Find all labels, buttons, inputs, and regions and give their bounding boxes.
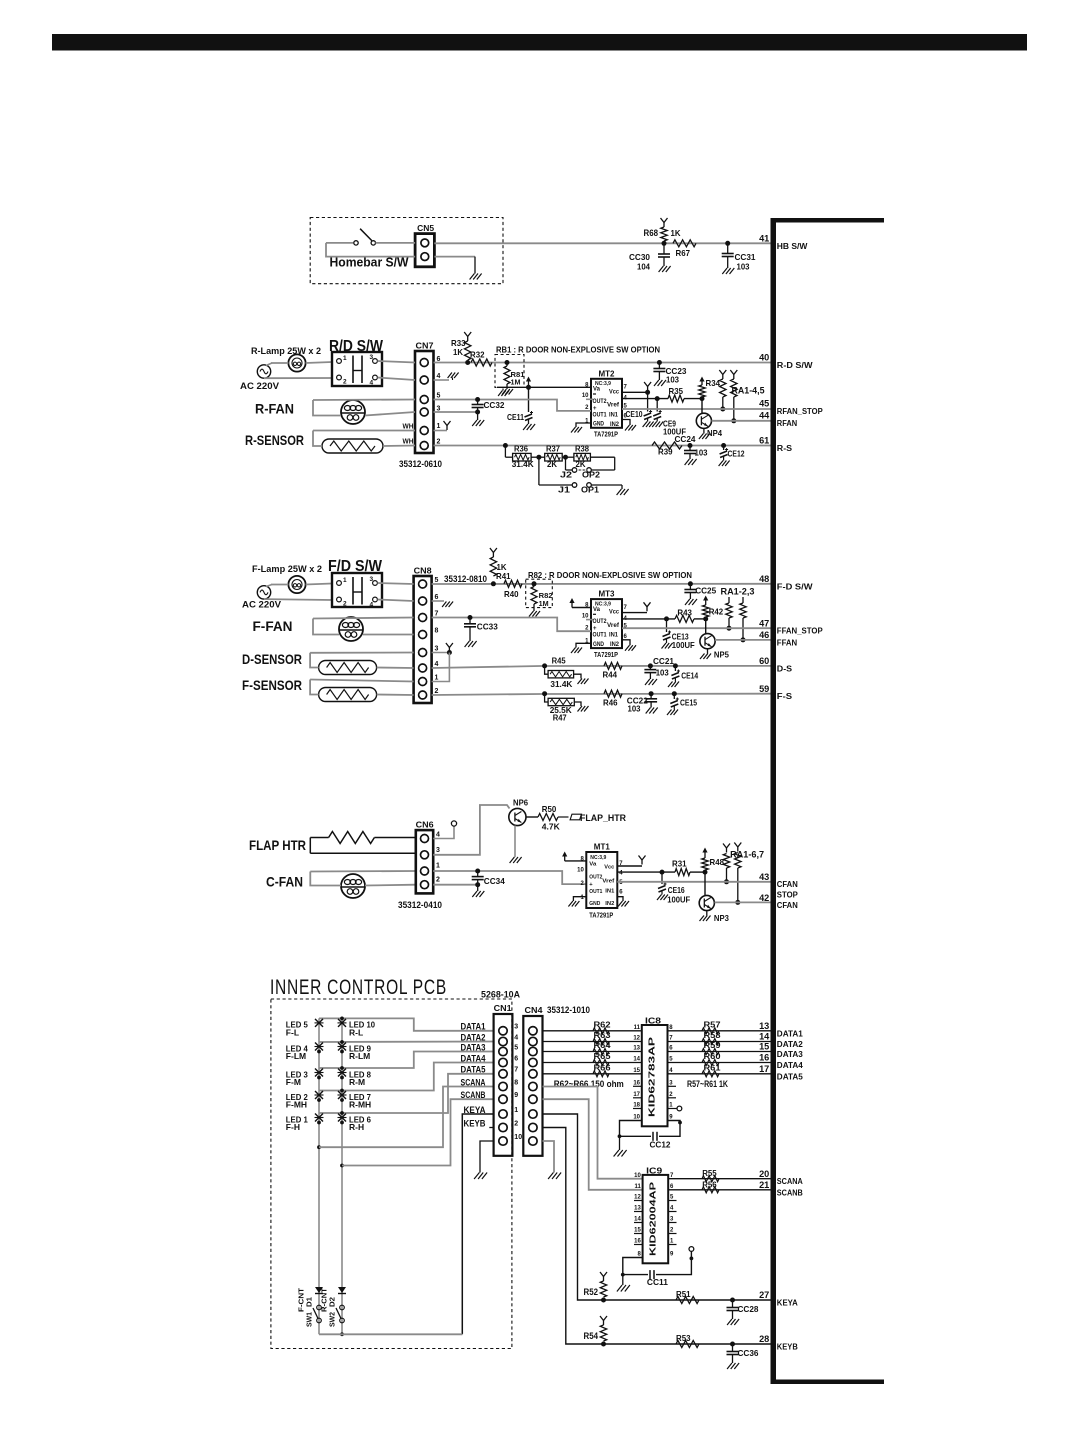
svg-text:OP1: OP1 [581,485,599,495]
svg-text:D2: D2 [328,1297,337,1307]
svg-text:R54: R54 [584,1331,599,1341]
svg-text:2: 2 [343,601,347,608]
svg-text:Vcc: Vcc [604,865,615,871]
svg-text:R63: R63 [594,1031,612,1040]
svg-text:2: 2 [435,688,439,695]
svg-text:35312-0810: 35312-0810 [444,574,487,584]
svg-text:DATA5: DATA5 [461,1065,486,1075]
svg-text:15: 15 [759,1042,769,1052]
svg-text:40: 40 [759,353,769,363]
svg-text:DATA1: DATA1 [461,1022,486,1032]
svg-text:F-H: F-H [286,1122,300,1132]
svg-text:R35: R35 [669,386,684,396]
svg-text:15: 15 [633,1068,640,1074]
svg-text:CC25: CC25 [695,586,716,596]
svg-text:SW1: SW1 [305,1312,314,1327]
svg-text:SCANA: SCANA [777,1176,803,1186]
svg-text:16: 16 [759,1053,769,1063]
svg-text:R59: R59 [704,1041,722,1050]
svg-text:CN5: CN5 [417,223,434,233]
svg-text:CC34: CC34 [484,876,505,886]
svg-text:48: 48 [759,574,769,584]
svg-text:10: 10 [633,1115,640,1121]
svg-text:IN2: IN2 [610,642,620,648]
svg-text:R82 : R DOOR NON-EXPLOSIVE SW: R82 : R DOOR NON-EXPLOSIVE SW OPTION [528,570,692,580]
svg-text:FFAN: FFAN [777,637,797,647]
svg-text:SCANA: SCANA [461,1077,486,1087]
svg-text:8: 8 [514,1079,518,1086]
svg-text:CN4: CN4 [525,1005,543,1015]
svg-text:59: 59 [759,684,769,694]
svg-text:1: 1 [437,423,441,430]
svg-text:10: 10 [514,1134,522,1141]
svg-text:WH: WH [403,437,414,446]
svg-text:4: 4 [435,661,439,668]
svg-text:R38: R38 [575,445,590,454]
svg-text:F-FAN: F-FAN [253,618,293,634]
svg-text:9: 9 [514,1092,518,1099]
svg-text:5: 5 [435,577,439,584]
svg-text:F-M: F-M [286,1077,301,1087]
svg-text:R34: R34 [706,378,721,388]
svg-text:OUT1: OUT1 [593,633,608,639]
svg-text:7: 7 [514,1067,518,1074]
svg-text:OUT1: OUT1 [589,889,603,895]
svg-text:47: 47 [759,618,769,628]
svg-text:2K: 2K [576,459,587,469]
svg-text:R-M: R-M [349,1077,365,1087]
svg-text:F-L: F-L [286,1028,299,1038]
svg-text:+: + [589,882,593,888]
svg-text:CC36: CC36 [738,1348,759,1358]
svg-text:R31: R31 [672,859,687,869]
svg-text:CE10: CE10 [626,409,643,419]
svg-text:5: 5 [437,393,441,400]
svg-text:17: 17 [633,1092,640,1098]
svg-text:1M: 1M [511,378,521,387]
svg-text:TA7291P: TA7291P [594,430,618,439]
svg-text:4: 4 [436,832,440,839]
svg-text:43: 43 [759,872,769,882]
svg-text:R50: R50 [542,804,557,814]
svg-text:1: 1 [436,863,440,870]
svg-text:F-Lamp 25W x 2: F-Lamp 25W x 2 [252,564,322,574]
svg-text:1K: 1K [671,228,682,238]
svg-text:R68: R68 [644,228,659,238]
svg-text:60: 60 [759,656,769,666]
svg-text:1M: 1M [539,599,549,608]
svg-text:103: 103 [628,704,641,714]
svg-text:R45: R45 [552,657,567,666]
svg-text:R55: R55 [702,1169,717,1178]
svg-text:R32: R32 [470,350,485,360]
svg-text:103: 103 [656,668,669,678]
svg-text:28: 28 [759,1334,769,1344]
svg-text:16: 16 [634,1239,641,1245]
svg-text:3: 3 [436,847,440,854]
svg-text:DATA3: DATA3 [777,1049,803,1059]
svg-text:13: 13 [633,1046,640,1052]
svg-text:OP2: OP2 [582,470,600,480]
svg-text:SCANB: SCANB [461,1090,486,1100]
svg-text:F-S: F-S [777,691,793,701]
svg-text:8: 8 [435,628,439,635]
svg-text:13: 13 [759,1021,769,1031]
svg-text:R-D S/W: R-D S/W [777,360,814,370]
svg-text:RFAN_STOP: RFAN_STOP [777,406,823,416]
svg-text:RFAN: RFAN [777,418,797,428]
svg-text:GND: GND [589,901,600,907]
svg-text:D1: D1 [305,1297,314,1307]
svg-text:D-S: D-S [777,663,793,673]
svg-text:F-D S/W: F-D S/W [777,581,814,591]
svg-text:45: 45 [759,399,769,409]
svg-text:3: 3 [370,576,374,583]
svg-text:CC24: CC24 [675,434,696,444]
svg-text:NP6: NP6 [513,798,528,808]
svg-text:NP5: NP5 [714,650,729,660]
svg-text:J1: J1 [558,485,570,495]
svg-text:IN1: IN1 [605,889,615,895]
svg-text:4: 4 [514,1034,518,1041]
svg-text:STOP: STOP [777,890,798,900]
svg-text:WH: WH [403,422,414,431]
svg-text:Vref: Vref [602,879,614,885]
svg-text:C-FAN: C-FAN [266,874,303,890]
svg-text:1: 1 [343,577,347,584]
svg-text:DATA1: DATA1 [777,1028,803,1038]
svg-text:CN7: CN7 [416,341,434,351]
svg-text:3: 3 [514,1024,518,1031]
svg-text:CC31: CC31 [735,252,756,262]
svg-text:R37: R37 [546,445,561,454]
svg-text:R44: R44 [603,670,618,680]
svg-text:R46: R46 [603,698,618,708]
svg-text:KEYA: KEYA [777,1298,798,1308]
svg-text:Va: Va [589,862,597,868]
svg-text:KID62004AP: KID62004AP [649,1181,658,1256]
svg-text:IC8: IC8 [645,1016,661,1026]
svg-text:13: 13 [634,1206,641,1212]
svg-text:RA1-4,5: RA1-4,5 [732,386,765,396]
svg-text:46: 46 [759,630,769,640]
svg-text:OUT2: OUT2 [589,875,602,881]
svg-text:R62: R62 [594,1020,612,1029]
svg-text:CN1: CN1 [494,1003,512,1013]
svg-text:OUT2: OUT2 [593,399,608,405]
svg-text:SW2: SW2 [328,1312,337,1327]
svg-text:15: 15 [634,1228,641,1234]
svg-text:R60: R60 [704,1052,722,1061]
svg-text:R36: R36 [514,445,529,454]
svg-text:Va: Va [593,387,601,393]
svg-text:R-Lamp 25W x 2: R-Lamp 25W x 2 [251,346,321,356]
svg-text:1K: 1K [453,347,464,357]
svg-text:R57~R61 1K: R57~R61 1K [687,1079,728,1089]
svg-text:Vref: Vref [607,403,620,409]
svg-text:3: 3 [370,354,374,361]
svg-text:INNER CONTROL PCB: INNER CONTROL PCB [270,976,447,999]
svg-text:31.4K: 31.4K [550,679,573,689]
svg-text:+: + [593,406,597,412]
svg-text:44: 44 [759,411,770,421]
svg-text:Vref: Vref [607,623,620,629]
svg-text:27: 27 [759,1290,769,1300]
svg-text:R-SENSOR: R-SENSOR [245,432,304,448]
svg-text:IN2: IN2 [605,901,614,907]
svg-text:R64: R64 [594,1041,612,1050]
svg-text:2: 2 [343,379,347,386]
svg-text:11: 11 [634,1025,641,1031]
svg-text:AC 220V: AC 220V [240,381,280,392]
svg-text:3: 3 [435,646,439,653]
svg-text:6: 6 [435,594,439,601]
svg-text:103: 103 [666,375,679,385]
svg-text:CN8: CN8 [414,566,432,576]
svg-text:10: 10 [577,868,584,874]
svg-text:R41: R41 [496,571,511,581]
svg-text:DATA3: DATA3 [461,1042,486,1052]
svg-text:IN1: IN1 [609,412,619,418]
svg-text:CC30: CC30 [629,252,650,262]
svg-text:35312-0410: 35312-0410 [398,900,442,910]
svg-text:1: 1 [514,1107,518,1114]
svg-text:F-MH: F-MH [286,1100,307,1110]
svg-text:R42: R42 [709,607,724,617]
svg-text:4.7K: 4.7K [542,822,561,832]
svg-text:DATA4: DATA4 [461,1053,486,1063]
svg-text:CC32: CC32 [484,400,505,410]
svg-text:104: 104 [637,262,650,272]
svg-text:R52: R52 [584,1287,599,1297]
svg-text:R67: R67 [676,248,691,258]
svg-text:+: + [593,626,597,632]
svg-text:TA7291P: TA7291P [589,911,613,920]
svg-text:16: 16 [633,1081,640,1087]
svg-text:10: 10 [582,393,589,399]
svg-text:CE15: CE15 [680,698,697,708]
svg-text:DATA4: DATA4 [777,1060,803,1070]
svg-text:MT2: MT2 [599,368,615,378]
svg-text:41: 41 [759,234,769,244]
svg-text:17: 17 [759,1064,769,1074]
svg-text:2: 2 [437,439,441,446]
svg-text:10: 10 [582,613,589,619]
svg-text:FLAP HTR: FLAP HTR [249,837,306,853]
svg-text:1: 1 [435,675,439,682]
svg-text:10: 10 [634,1173,641,1179]
svg-text:7: 7 [435,611,439,618]
svg-text:31.4K: 31.4K [512,459,535,469]
svg-text:F-LM: F-LM [286,1051,306,1061]
svg-text:IN2: IN2 [610,422,620,428]
svg-text:14: 14 [633,1057,640,1063]
svg-text:20: 20 [759,1169,769,1179]
svg-text:CFAN: CFAN [777,879,798,889]
svg-text:CE12: CE12 [728,449,745,459]
svg-text:CE14: CE14 [681,671,698,681]
svg-text:R47: R47 [553,714,568,723]
svg-text:R43: R43 [677,608,692,618]
svg-text:NP4: NP4 [707,428,722,438]
svg-text:RB1 : R DOOR NON-EXPLOSIVE SW: RB1 : R DOOR NON-EXPLOSIVE SW OPTION [496,345,660,355]
svg-text:RA1-2,3: RA1-2,3 [721,587,755,597]
svg-text:DATA2: DATA2 [777,1039,803,1049]
svg-text:DATA2: DATA2 [461,1032,486,1042]
svg-text:Vcc: Vcc [609,610,620,616]
svg-text:GND: GND [593,422,605,428]
svg-text:TA7291P: TA7291P [594,650,618,659]
svg-text:12: 12 [634,1195,641,1201]
svg-text:103: 103 [695,448,708,458]
svg-text:NP3: NP3 [714,913,729,923]
svg-text:61: 61 [759,436,769,446]
svg-text:103: 103 [737,262,750,272]
svg-text:R56: R56 [702,1180,717,1189]
svg-text:11: 11 [634,1184,641,1190]
svg-text:CN6: CN6 [416,820,434,830]
svg-text:KEYB: KEYB [777,1342,798,1352]
svg-text:4: 4 [370,602,374,609]
svg-text:KID62783AP: KID62783AP [648,1036,657,1117]
svg-text:R62~R66 150 ohm: R62~R66 150 ohm [554,1079,624,1089]
svg-text:CC21: CC21 [653,656,674,666]
svg-text:D-SENSOR: D-SENSOR [242,651,302,667]
svg-text:2K: 2K [547,459,558,469]
svg-text:R-H: R-H [349,1122,364,1132]
svg-text:R40: R40 [504,589,519,599]
svg-text:21: 21 [759,1180,769,1190]
svg-text:IC9: IC9 [646,1165,662,1175]
svg-text:OUT1: OUT1 [593,412,608,418]
svg-text:R39: R39 [658,447,673,457]
svg-text:14: 14 [759,1032,770,1042]
svg-text:4: 4 [437,373,441,380]
svg-text:OUT2: OUT2 [593,619,608,625]
svg-text:35312-0610: 35312-0610 [399,459,442,469]
svg-text:Homebar S/W: Homebar S/W [330,256,409,270]
svg-text:R-S: R-S [777,443,793,453]
svg-text:FFAN_STOP: FFAN_STOP [777,626,823,636]
svg-text:18: 18 [633,1103,640,1109]
svg-text:Vcc: Vcc [609,389,620,395]
svg-text:CC12: CC12 [650,1140,671,1150]
svg-text:R-MH: R-MH [349,1100,371,1110]
svg-text:CC28: CC28 [738,1304,759,1314]
svg-text:100UF: 100UF [667,895,690,905]
svg-text:R66: R66 [594,1063,612,1072]
svg-text:R53: R53 [676,1334,691,1343]
svg-text:R61: R61 [704,1063,722,1072]
svg-text:HB S/W: HB S/W [777,241,808,251]
svg-text:42: 42 [759,893,769,903]
svg-text:5268-10A: 5268-10A [481,990,520,1000]
svg-text:CC33: CC33 [477,622,498,632]
svg-text:J2: J2 [560,470,572,480]
svg-text:R58: R58 [704,1031,722,1040]
svg-text:6: 6 [514,1055,518,1062]
svg-text:CC11: CC11 [647,1277,668,1287]
svg-text:SCANB: SCANB [777,1187,803,1197]
svg-text:2: 2 [436,877,440,884]
svg-text:KEYB: KEYB [464,1118,486,1128]
svg-text:CFAN: CFAN [777,900,798,910]
svg-text:35312-1010: 35312-1010 [547,1005,590,1015]
svg-text:R-FAN: R-FAN [255,401,294,417]
svg-text:Va: Va [593,607,601,613]
svg-text:FLAP_HTR: FLAP_HTR [580,813,626,823]
svg-text:R51: R51 [676,1290,691,1299]
svg-text:4: 4 [370,380,374,387]
svg-text:1: 1 [343,355,347,362]
svg-text:CE16: CE16 [668,885,685,895]
svg-text:R57: R57 [704,1020,722,1029]
svg-text:KEYA: KEYA [464,1105,486,1115]
svg-text:R-L: R-L [349,1028,363,1038]
svg-text:R-LM: R-LM [349,1051,370,1061]
svg-text:5: 5 [514,1044,518,1051]
svg-text:MT3: MT3 [599,589,615,599]
svg-text:14: 14 [634,1217,641,1223]
svg-text:IN1: IN1 [609,633,619,639]
svg-text:DATA5: DATA5 [777,1071,803,1081]
svg-text:CE11: CE11 [507,412,524,422]
svg-text:100UF: 100UF [672,640,695,650]
svg-text:AC 220V: AC 220V [242,600,282,611]
svg-text:NC:3,9: NC:3,9 [590,855,607,861]
svg-text:R65: R65 [594,1052,612,1061]
svg-text:R48: R48 [710,857,725,867]
svg-text:12: 12 [633,1036,640,1042]
svg-text:F-SENSOR: F-SENSOR [242,677,302,693]
svg-text:MT1: MT1 [594,842,610,852]
svg-text:GND: GND [593,642,605,648]
svg-text:2: 2 [514,1120,518,1127]
